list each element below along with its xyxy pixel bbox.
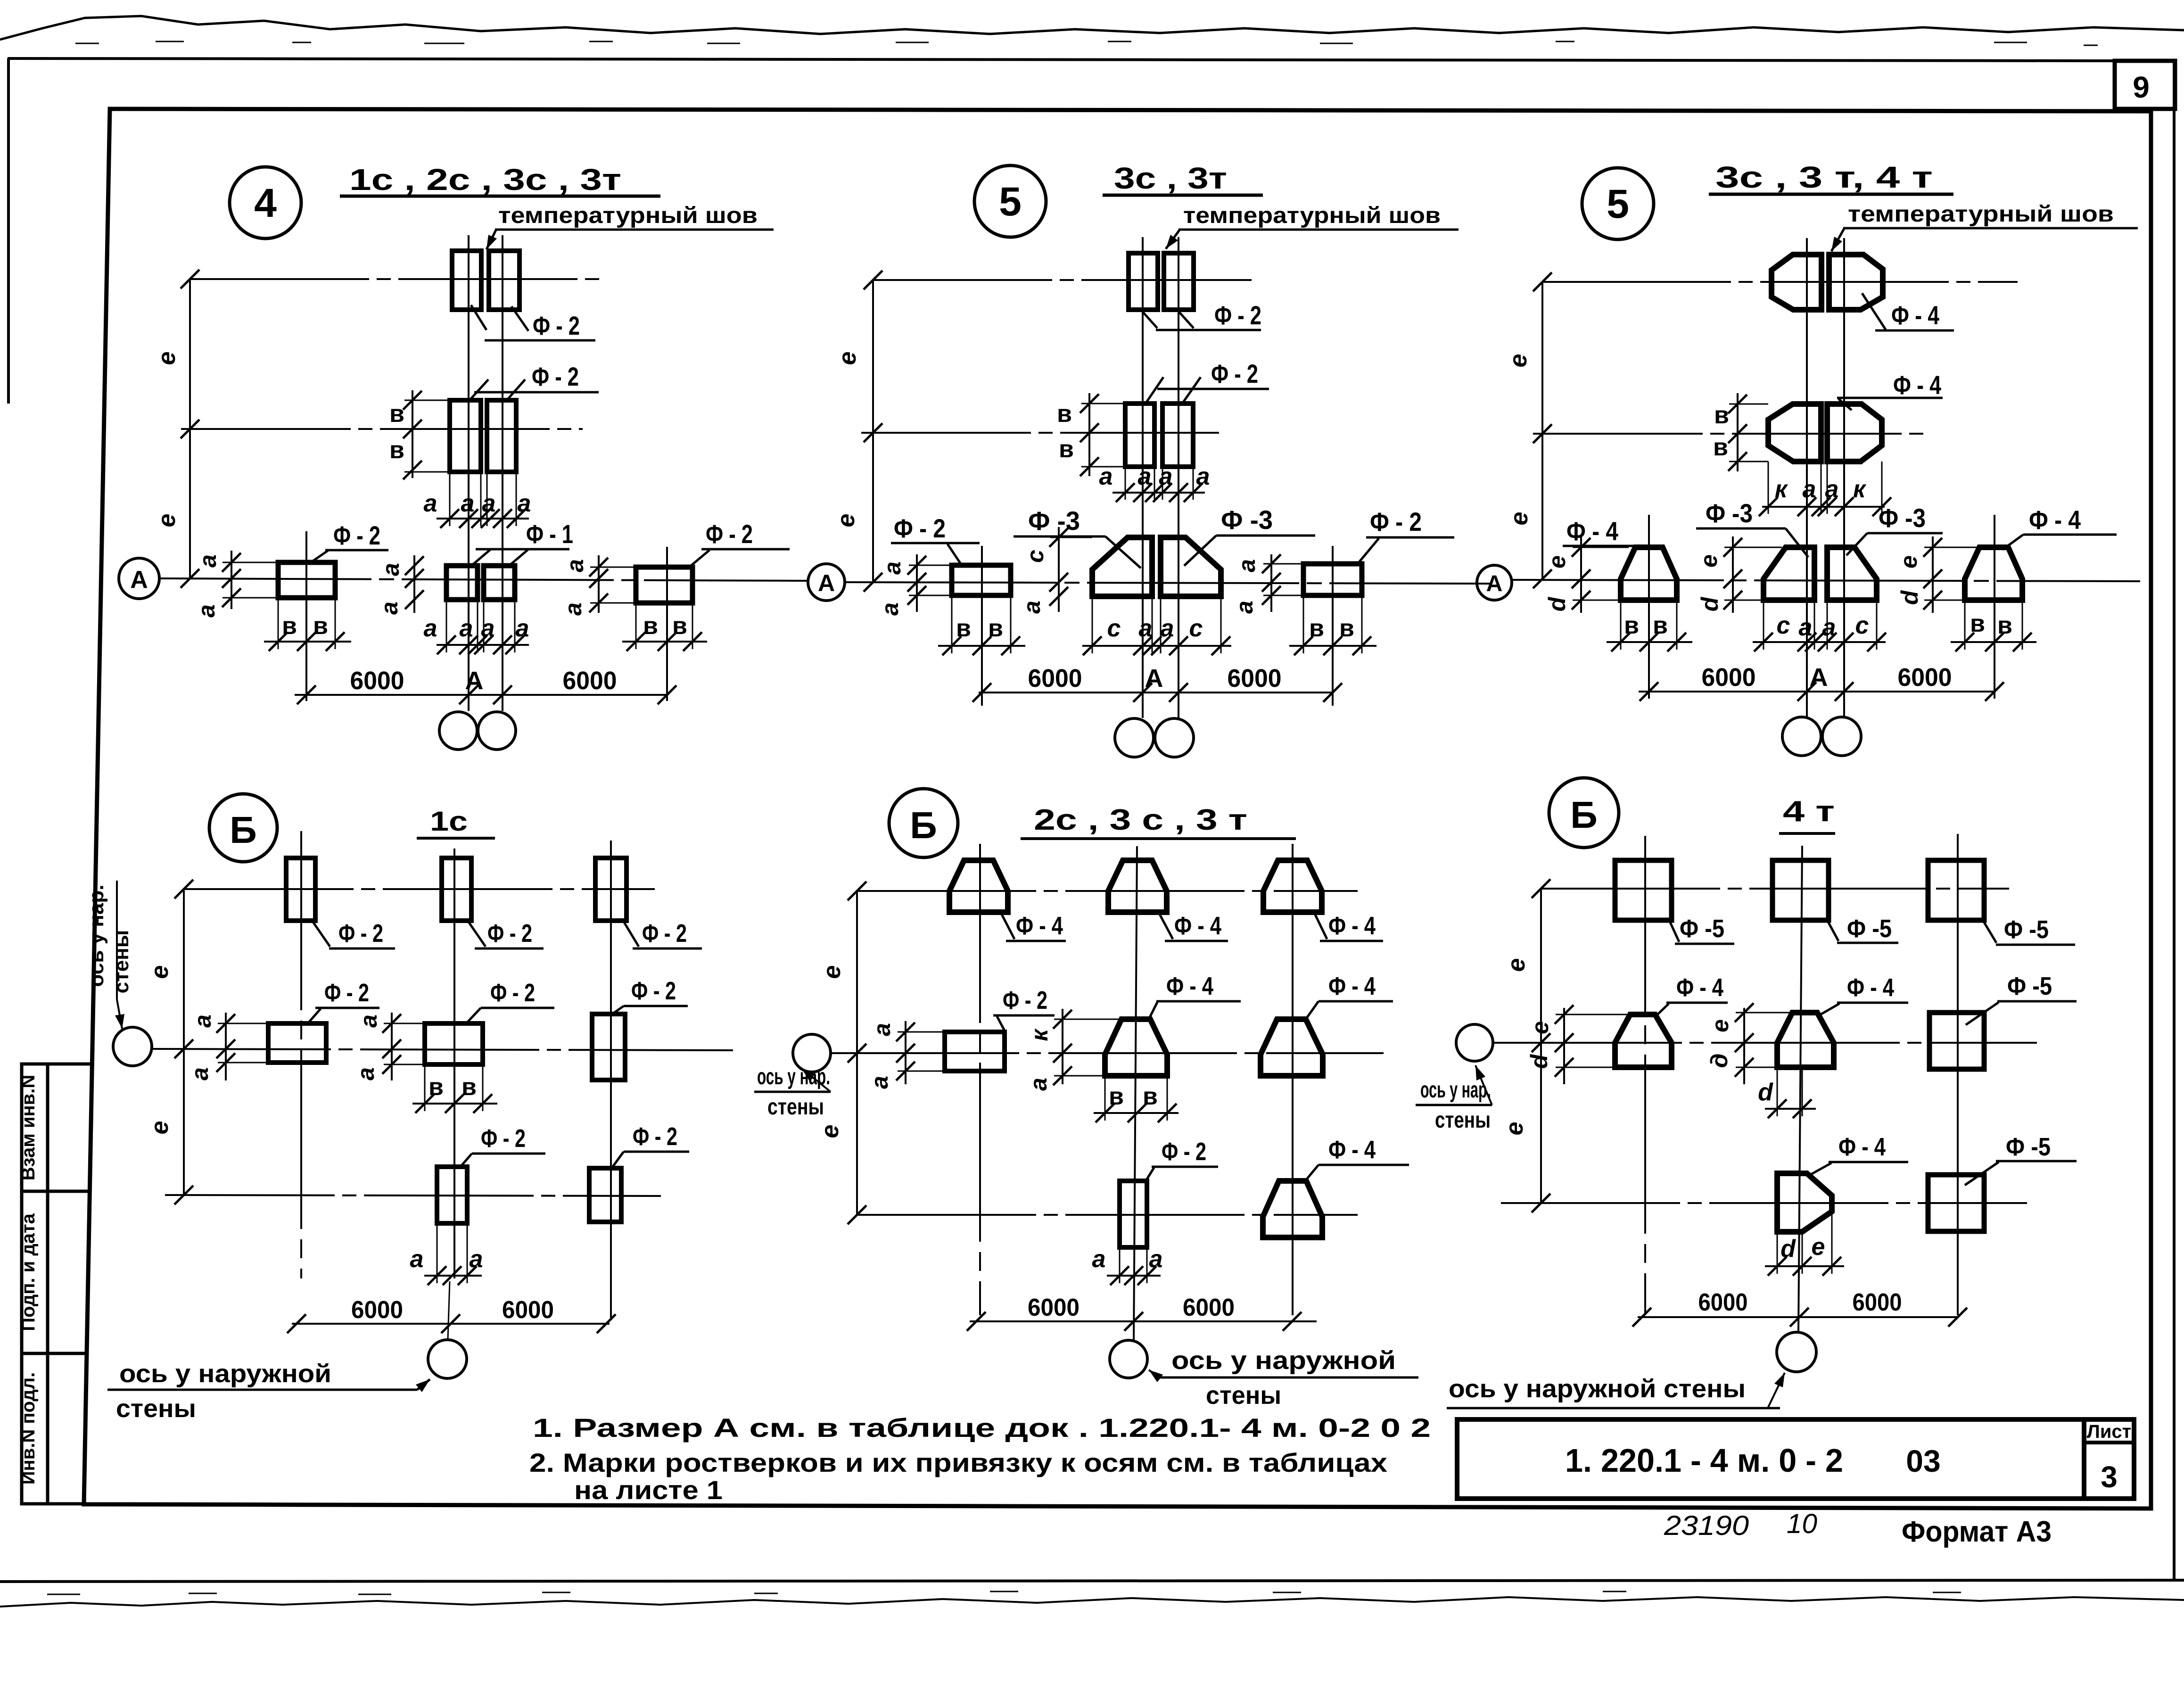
svg-text:а: а xyxy=(187,1067,213,1080)
panel B1 wall axis circle left xyxy=(113,1027,152,1066)
svg-text:Ф - 4: Ф - 4 xyxy=(1174,912,1221,940)
panel 6 row3 pile cap F-3 right xyxy=(1827,547,1877,600)
panel B2 row3 leader F-4 col3 xyxy=(1305,1165,1319,1181)
svg-text:а: а xyxy=(869,1023,895,1036)
panel B2 detail circle xyxy=(889,789,958,857)
panel B3 label arrow bottom xyxy=(1768,1373,1785,1408)
panel 5 row3 right leader xyxy=(1358,538,1379,564)
panel B2 row3 axis line xyxy=(857,1214,1358,1216)
svg-text:е: е xyxy=(153,352,181,365)
panel 6 row2 axis line xyxy=(1533,433,1928,435)
panel B3 row2 dim e d col2 xyxy=(1743,1008,1745,1084)
panel B3 row1 leader col2 xyxy=(1827,919,1838,941)
svg-text:6000: 6000 xyxy=(502,1296,554,1324)
panel B2 label underline bottom xyxy=(1159,1377,1418,1379)
svg-text:с: с xyxy=(1777,612,1790,639)
svg-text:е: е xyxy=(146,965,173,979)
svg-text:Ф - 4: Ф - 4 xyxy=(1566,516,1618,546)
panel 4 row3 right leader xyxy=(689,550,709,567)
svg-text:в: в xyxy=(1109,1083,1124,1110)
panel 6 axis circle bottom left xyxy=(1782,717,1821,756)
panel B1 row2 label underline col2 xyxy=(481,1007,554,1009)
panel B2 row1 leader col1 xyxy=(999,910,1014,939)
svg-text:Ф - 4: Ф - 4 xyxy=(1328,1136,1376,1164)
svg-text:в: в xyxy=(389,400,404,428)
panel 6 F-3 dim e d vertical xyxy=(1732,536,1734,613)
svg-text:Б: Б xyxy=(230,809,257,851)
svg-text:е: е xyxy=(818,965,846,979)
panel 4 row2 rostverk F-2 left xyxy=(450,400,481,472)
panel B1 row1 rostverk F-2 col3 xyxy=(595,858,626,921)
panel 5 row1 rostverk F-2 left xyxy=(1129,253,1158,310)
svg-text:температурный шов: температурный шов xyxy=(498,203,758,228)
svg-text:е: е xyxy=(1696,554,1722,568)
panel B1 row2 rostverk F-2 col3 xyxy=(592,1014,625,1080)
panel 5 row2 label underline xyxy=(1157,388,1269,390)
panel B1 title underline xyxy=(417,837,495,840)
svg-text:ось у наружной: ось у наружной xyxy=(119,1360,331,1388)
panel 4 row3 center dim a a left side xyxy=(413,555,415,613)
panel B1 column line 3 xyxy=(610,841,612,1320)
svg-text:е: е xyxy=(146,1121,173,1135)
panel 5 axis circle bottom right xyxy=(1155,718,1194,757)
svg-text:Ф - 1: Ф - 1 xyxy=(526,519,573,549)
panel B1 row2 leader col2 xyxy=(466,1008,481,1024)
svg-text:А: А xyxy=(1810,663,1828,692)
panel B2 row2 dim k a col2 xyxy=(1062,1009,1063,1084)
panel B3 row3 dim d e below col2 xyxy=(1765,1265,1844,1267)
svg-text:4 т: 4 т xyxy=(1783,795,1835,828)
outer border top xyxy=(8,58,2115,61)
torn paper edge top xyxy=(0,16,2184,40)
svg-text:в: в xyxy=(1713,434,1728,461)
svg-text:А: А xyxy=(1145,664,1163,693)
svg-text:Подп. и дата: Подп. и дата xyxy=(18,1213,39,1331)
panel 5 row1 rostverk F-2 right xyxy=(1164,253,1194,310)
svg-text:а: а xyxy=(1234,559,1260,572)
panel 4 column line right xyxy=(502,235,503,711)
panel 4 row3 right column centerline xyxy=(666,547,668,701)
panel 6 temperaturny shov underline xyxy=(1843,227,2138,230)
svg-text:в: в xyxy=(429,1073,444,1101)
svg-text:Взам инв.N: Взам инв.N xyxy=(18,1075,39,1181)
panel B1 row1 label underline col3 xyxy=(633,948,702,950)
svg-text:в: в xyxy=(956,615,971,642)
panel B3 row1 footing F-5 col3 xyxy=(1928,860,1984,920)
panel B3 row3 footing F-5 col3 xyxy=(1928,1175,1984,1231)
panel B2 row2 underline F-2 col1 xyxy=(993,1014,1055,1017)
torn paper edge bottom line xyxy=(0,1580,2184,1582)
panel B3 row1 leader col1 xyxy=(1669,919,1679,942)
svg-text:3с , 3т: 3с , 3т xyxy=(1114,161,1227,195)
panel B3 row1 footing F-5 col2 xyxy=(1772,860,1829,920)
panel B3 row1 leader col3 xyxy=(1982,919,1996,943)
panel B2 column line 1 xyxy=(979,844,981,1315)
panel B3 wall axis circle left xyxy=(1456,1024,1493,1061)
panel B1 column line 1 xyxy=(300,831,302,1278)
svg-text:6000: 6000 xyxy=(1698,1289,1748,1316)
svg-text:d: d xyxy=(1544,596,1570,611)
svg-text:в: в xyxy=(1997,612,2012,639)
panel B2 row3 rostverk F-2 col2 xyxy=(1120,1181,1147,1247)
svg-text:в: в xyxy=(643,612,658,640)
panel 4 row3 right label underline xyxy=(701,548,790,551)
panel B2 row2 pile cap F-4 col3 xyxy=(1261,1019,1323,1076)
panel 6 row1 axis line xyxy=(1542,281,2018,283)
panel B3 row2 leader col1 xyxy=(1657,1004,1669,1015)
panel B2 row1 underline col1 xyxy=(1006,940,1066,942)
panel B1 row3 rostverk F-2 col2 xyxy=(437,1167,467,1223)
panel B3 row1 footing F-5 col1 xyxy=(1615,860,1672,920)
panel B1 rotated label leader arrow xyxy=(117,999,122,1029)
panel 5 row2 rostverk F-2 left xyxy=(1125,404,1154,467)
svg-text:d: d xyxy=(1896,590,1923,605)
panel B2 label arrow bottom xyxy=(1149,1370,1159,1377)
panel B3 row2 dim d below col2 xyxy=(1765,1108,1816,1110)
panel B1 row1 leader col3 xyxy=(622,919,639,947)
svg-text:а: а xyxy=(193,604,220,618)
svg-text:а: а xyxy=(560,602,586,616)
panel B3 column line 3 xyxy=(1957,834,1959,1315)
svg-text:6000: 6000 xyxy=(351,1296,403,1324)
svg-text:в: в xyxy=(988,615,1003,642)
panel 4 row3 dim v v below left rect xyxy=(264,641,351,643)
svg-text:в: в xyxy=(1057,400,1072,428)
panel B2 wall axis circle left xyxy=(793,1034,831,1072)
panel B1 row3 leader col3 xyxy=(611,1152,624,1169)
svg-text:Ф -5: Ф -5 xyxy=(1847,915,1892,943)
panel B2 dimension line 6000 6000 xyxy=(970,1320,1317,1322)
panel 4 dimension line 6000 A 6000 xyxy=(295,694,667,696)
panel 4 axis circle bottom left xyxy=(439,712,477,750)
panel 4 detail circle xyxy=(230,167,301,239)
svg-text:23190: 23190 xyxy=(1664,1510,1749,1541)
svg-text:10: 10 xyxy=(1787,1509,1817,1539)
panel 4 row2 label underline xyxy=(474,391,599,394)
panel B2 left label underline xyxy=(754,1091,831,1093)
panel 4 row3 right dim a a xyxy=(598,555,600,613)
svg-text:а: а xyxy=(1159,463,1173,490)
svg-text:Ф - 2: Ф - 2 xyxy=(1214,300,1261,330)
svg-text:а: а xyxy=(424,615,437,642)
panel 5 joint leader arrow xyxy=(1166,230,1179,249)
panel B3 dimension line 6000 6000 xyxy=(1638,1316,1958,1318)
svg-text:а: а xyxy=(562,559,588,572)
panel 6 row3 left dim e d xyxy=(1580,536,1582,613)
panel 4 row3 rostverk F-2 right xyxy=(636,567,692,603)
svg-text:А: А xyxy=(1486,571,1503,596)
svg-text:Ф - 2: Ф - 2 xyxy=(642,919,687,948)
panel 4 row2 axis line xyxy=(181,428,583,430)
panel 6 detail circle xyxy=(1582,168,1654,239)
panel 5 row2 leader right xyxy=(1182,377,1201,404)
panel B3 column line 2 xyxy=(1798,846,1802,1332)
svg-text:Ф - 2: Ф - 2 xyxy=(533,311,580,340)
panel 5 row2 dim a a a a xyxy=(1113,492,1205,494)
panel 5 row3 axis line xyxy=(845,582,1490,584)
panel B2 row1 leader col3 xyxy=(1313,910,1327,939)
panel B1 row3 axis line xyxy=(165,1195,661,1196)
svg-text:а: а xyxy=(470,1245,483,1273)
svg-text:е: е xyxy=(1896,555,1922,569)
svg-text:Ф - 4: Ф - 4 xyxy=(1891,300,1939,330)
svg-text:а: а xyxy=(1231,601,1258,614)
panel B3 row2 dim e d col1 xyxy=(1563,1008,1565,1084)
svg-text:в: в xyxy=(1970,610,1985,637)
svg-text:в: в xyxy=(1059,436,1074,463)
svg-text:а: а xyxy=(410,1245,424,1273)
panel 4 row3 left label underline xyxy=(325,549,388,552)
panel 6 row3 right column centerline xyxy=(1994,515,1995,699)
svg-text:е: е xyxy=(1501,1122,1528,1136)
svg-text:температурный шов: температурный шов xyxy=(1848,202,2114,227)
panel 4 row2 dim extension verticals xyxy=(449,472,451,526)
panel 4 row1 label underline xyxy=(485,339,595,342)
svg-text:а: а xyxy=(424,490,437,517)
svg-text:Ф -3: Ф -3 xyxy=(1706,498,1753,528)
svg-text:а: а xyxy=(1161,615,1174,642)
panel 6 row3 trapezoid F-4 right xyxy=(1965,547,2022,600)
panel 5 F-3 left underline xyxy=(1014,536,1105,538)
panel 4 row3 dim a a a a below center xyxy=(437,644,529,646)
sheet number box 9 xyxy=(2115,61,2175,109)
panel B3 row2 underline col2 xyxy=(1837,1002,1908,1004)
svg-text:а: а xyxy=(866,1076,893,1089)
svg-text:ось у нар.: ось у нар. xyxy=(757,1064,830,1089)
panel B1 row2 rostverk F-2 col2 xyxy=(425,1023,483,1064)
svg-text:1с , 2с , 3с , 3т: 1с , 2с , 3с , 3т xyxy=(349,163,621,197)
torn paper edge bottom wavy xyxy=(0,1597,2184,1607)
panel 6 row3 right label underline xyxy=(2023,534,2117,536)
svg-text:Ф -5: Ф -5 xyxy=(2004,915,2049,944)
svg-text:1. 220.1 - 4 м. 0 - 2: 1. 220.1 - 4 м. 0 - 2 xyxy=(1565,1442,1843,1479)
panel 6 axis circle bottom right xyxy=(1822,717,1861,756)
svg-text:а: а xyxy=(1138,463,1152,490)
panel B1 row2 leader col3 xyxy=(611,1006,624,1015)
svg-text:а: а xyxy=(460,615,473,642)
panel 6 row3 dim v v below left trapezoid xyxy=(1607,641,1692,643)
svg-text:а: а xyxy=(1803,476,1816,503)
panel 6 row1 leader xyxy=(1862,293,1886,330)
panel B1 row2 label underline col1 xyxy=(315,1007,379,1009)
svg-text:9: 9 xyxy=(2133,70,2150,104)
panel 4 row3 axis line xyxy=(159,578,807,581)
svg-text:с: с xyxy=(1189,615,1203,642)
svg-text:Ф - 2: Ф - 2 xyxy=(1211,359,1258,388)
panel B3 title underline xyxy=(1779,832,1835,835)
svg-text:6000: 6000 xyxy=(1853,1289,1902,1316)
panel 5 row3 right dim a a xyxy=(1270,554,1272,612)
panel B2 row1 pile cap F-4 col1 xyxy=(949,860,1008,912)
panel 5 column line right xyxy=(1178,237,1179,718)
svg-text:а: а xyxy=(1196,463,1210,490)
panel B3 row2 leader col2 xyxy=(1821,1004,1839,1014)
svg-text:в: в xyxy=(1309,615,1324,642)
panel 6 row3 right dim e d xyxy=(1932,536,1934,613)
panel 5 F-3 left leader xyxy=(1105,536,1141,568)
svg-text:6000: 6000 xyxy=(1898,663,1952,692)
panel B1 row1 rostverk F-2 col1 xyxy=(286,858,315,921)
panel B2 row1 leader col2 xyxy=(1157,910,1173,939)
panel 4 row3 F-1 underline xyxy=(476,548,569,551)
panel 4 row1 rostverk F-2 left xyxy=(452,251,481,310)
panel 6 row3 left label underline xyxy=(1563,545,1637,547)
panel B3 row2 footing F-5 col3 xyxy=(1929,1013,1984,1069)
svg-text:Ф - 2: Ф - 2 xyxy=(487,919,532,948)
panel 5 row1 axis line xyxy=(873,279,1252,281)
svg-text:в: в xyxy=(1653,612,1668,639)
svg-text:d: d xyxy=(1697,596,1723,611)
panel 5 row3 right column centerline xyxy=(1332,546,1334,706)
svg-text:Ф - 2: Ф - 2 xyxy=(894,513,946,543)
panel 5 row3 rostverk F-2 right xyxy=(1303,564,1362,595)
panel B1 row3 rostverk F-2 col3 xyxy=(589,1168,621,1222)
panel B1 column 2 lower line xyxy=(448,1281,450,1340)
svg-text:Б: Б xyxy=(910,804,937,846)
panel B3 row1 underline col3 xyxy=(1996,944,2075,946)
panel 4 row3 rostverk F-2 left xyxy=(278,562,335,598)
panel 4 row3 F-1 leader right xyxy=(509,550,528,566)
left margin stamp inner vertical xyxy=(46,1064,49,1504)
panel 6 row1 label underline xyxy=(1875,330,1954,332)
svg-text:стены: стены xyxy=(116,1394,196,1423)
svg-text:Ф -3: Ф -3 xyxy=(1028,506,1080,536)
svg-text:Формат А3: Формат А3 xyxy=(1902,1516,2052,1548)
panel B1 row2 axis line xyxy=(152,1049,733,1050)
svg-text:ось у нар.: ось у нар. xyxy=(85,885,108,987)
title block list divider xyxy=(2084,1441,2134,1444)
panel B2 wall axis circle bottom xyxy=(1110,1340,1147,1378)
svg-text:Ф -5: Ф -5 xyxy=(2006,1133,2051,1161)
panel 5 axis circle bottom left xyxy=(1115,718,1154,757)
panel 5 row1 leader right xyxy=(1177,310,1194,328)
left margin stamp column box xyxy=(22,1064,92,1504)
svg-text:Ф - 2: Ф - 2 xyxy=(1162,1138,1206,1166)
svg-text:5: 5 xyxy=(999,179,1022,224)
panel B1 row2 dim v v below col2 xyxy=(412,1103,497,1105)
panel B2 row3 underline F-4 col3 xyxy=(1319,1164,1409,1166)
svg-text:А: А xyxy=(130,566,148,594)
panel 5 row3 pile cap F-3 right xyxy=(1161,537,1221,596)
svg-text:к: к xyxy=(1026,1028,1053,1041)
svg-text:е: е xyxy=(1505,354,1532,368)
svg-text:в: в xyxy=(1714,402,1729,429)
svg-text:е: е xyxy=(1527,1021,1553,1034)
svg-text:е: е xyxy=(832,514,860,528)
panel 4 row1 leader left xyxy=(471,305,486,330)
panel 4 row3 dim v v below right rect xyxy=(622,641,707,643)
svg-text:1. Размер А см. в табли: 1. Размер А см. в таблице док . 1.220.1-… xyxy=(533,1413,1431,1443)
svg-text:Лист: Лист xyxy=(2087,1421,2132,1442)
panel B1 row1 rostverk F-2 col2 xyxy=(442,858,471,921)
svg-text:Ф - 4: Ф - 4 xyxy=(1166,972,1213,1000)
svg-text:на листе 1: на листе 1 xyxy=(574,1475,723,1505)
panel 4 row2 leader left xyxy=(470,379,488,400)
svg-text:в: в xyxy=(282,612,297,640)
svg-text:Ф - 2: Ф - 2 xyxy=(532,362,579,391)
svg-text:3с , 3 т, 4 т: 3с , 3 т, 4 т xyxy=(1715,160,1933,194)
panel 6 row2 pile cap F-4 left xyxy=(1768,404,1821,462)
panel 6 row3 dim c a a c xyxy=(1753,641,1886,643)
panel 6 F-3 left leader xyxy=(1786,528,1808,557)
panel B2 left label arrow xyxy=(801,1068,831,1092)
panel 5 dimension line 6000 A 6000 xyxy=(979,692,1333,693)
panel 5 row3 dim c a a c xyxy=(1082,645,1231,647)
panel B1 wall axis circle bottom xyxy=(428,1340,467,1378)
panel B3 left dimension line e e xyxy=(1540,889,1542,1203)
svg-text:е: е xyxy=(153,514,181,528)
panel 4 axis A circle xyxy=(119,558,159,599)
panel B2 row2 leader F-4 col3 xyxy=(1306,1001,1319,1019)
panel B3 row2 trapezoid F-4 col1 xyxy=(1615,1014,1672,1067)
panel B2 row2 underline F-4 col2 xyxy=(1156,1000,1241,1003)
svg-text:5: 5 xyxy=(1607,181,1629,227)
panel 4 row2 dim extension bottom xyxy=(404,471,450,473)
svg-text:1с: 1с xyxy=(430,806,468,837)
svg-text:а: а xyxy=(1149,1245,1163,1273)
panel 5 detail circle xyxy=(974,165,1046,237)
svg-text:а: а xyxy=(378,563,404,576)
panel 6 row3 trapezoid F-4 left xyxy=(1621,547,1677,600)
panel 6 row3 left column centerline xyxy=(1648,515,1650,699)
panel 4 row2 dim a a a a line xyxy=(437,518,529,519)
svg-text:а: а xyxy=(879,561,906,575)
panel 6 column line right xyxy=(1843,238,1845,717)
svg-text:А: А xyxy=(465,667,484,695)
svg-text:d: d xyxy=(1780,1235,1796,1262)
svg-text:е: е xyxy=(834,352,861,365)
svg-text:а: а xyxy=(518,490,531,517)
panel B1 dimension line 6000 6000 xyxy=(292,1323,610,1325)
svg-text:Б: Б xyxy=(1570,794,1598,836)
svg-text:д: д xyxy=(1706,1054,1732,1068)
panel B2 row1 axis line xyxy=(857,890,1358,892)
panel 6 row1 pile cap F-4 right xyxy=(1829,255,1883,310)
panel 4 column line left xyxy=(468,235,470,711)
panel B3 row3 underline F-5 col3 xyxy=(1996,1160,2077,1163)
panel B1 row2 dim a a col1 xyxy=(225,1013,227,1080)
svg-text:а: а xyxy=(195,554,221,568)
panel B2 row3 pile cap F-4 col3 xyxy=(1263,1181,1322,1237)
panel B2 column line 3 xyxy=(1292,844,1294,1315)
panel 6 row2 pile cap F-4 right xyxy=(1827,404,1882,462)
panel 4 row2 rostverk F-2 right xyxy=(487,400,516,472)
svg-text:а: а xyxy=(1825,476,1839,503)
svg-text:е: е xyxy=(1506,512,1533,526)
panel B3 row1 underline col1 xyxy=(1675,943,1734,945)
panel B1 label underline xyxy=(107,1389,417,1391)
title block list cell xyxy=(2084,1419,2134,1499)
panel B1 row3 leader col2 xyxy=(460,1154,472,1168)
panel 4 axis circle bottom right xyxy=(478,712,516,750)
svg-text:с: с xyxy=(1855,612,1869,639)
svg-text:а: а xyxy=(1822,614,1836,641)
panel B1 row1 axis line xyxy=(184,888,655,890)
panel B1 row2 dim a a col2 xyxy=(391,1013,393,1080)
svg-text:ось у наружной: ось у наружной xyxy=(1171,1346,1396,1375)
svg-text:Ф - 4: Ф - 4 xyxy=(1893,370,1941,400)
svg-text:Ф - 4: Ф - 4 xyxy=(1847,973,1894,1002)
svg-text:к: к xyxy=(1775,476,1788,503)
svg-text:Ф - 2: Ф - 2 xyxy=(631,977,676,1005)
panel B3 detail circle xyxy=(1549,778,1619,848)
panel B3 row2 trapezoid F-4 col2 xyxy=(1777,1013,1834,1067)
panel 5 row3 left leader xyxy=(948,544,962,565)
panel B1 rotated label underline xyxy=(116,881,118,999)
panel B3 row3 axis line xyxy=(1501,1202,2027,1204)
svg-text:в: в xyxy=(389,437,404,464)
panel 5 column line left xyxy=(1142,237,1144,718)
